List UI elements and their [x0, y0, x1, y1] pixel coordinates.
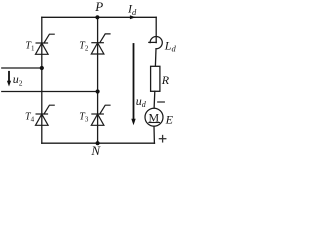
svg-text:T1: T1 — [25, 41, 35, 53]
minus sign (motor terminal) — [158, 101, 165, 103]
svg-text:E: E — [165, 113, 174, 127]
wire: inductor to resistor — [154, 49, 157, 67]
svg-text:T4: T4 — [25, 112, 35, 124]
svg-text:P: P — [94, 0, 103, 14]
svg-text:T3: T3 — [79, 112, 89, 124]
svg-text:u2: u2 — [13, 72, 23, 87]
thyristor T3 — [91, 105, 110, 125]
wire: resistor to motor — [153, 91, 156, 108]
plus sign (motor terminal) — [159, 136, 165, 142]
svg-text:N: N — [90, 143, 101, 158]
thyristor T2 — [91, 34, 110, 54]
wire: bottom bus N rail — [42, 142, 155, 144]
svg-text:Id: Id — [127, 2, 137, 17]
wire: motor to bottom bus — [153, 126, 155, 143]
node P — [94, 0, 103, 19]
node: upper AC junction on leg 1 — [40, 66, 44, 70]
resistor R — [151, 66, 160, 91]
thyristor T4 — [36, 105, 55, 125]
node: lower AC junction on leg 2 — [96, 89, 100, 93]
svg-text:Ld: Ld — [164, 38, 177, 53]
current arrow I_d — [127, 2, 137, 20]
wire: right branch from top corner to inductor — [155, 17, 157, 42]
inductor L_d — [149, 37, 162, 49]
svg-text:ud: ud — [136, 94, 147, 109]
wire: AC input upper line — [2, 67, 42, 69]
voltage arrow u_d — [131, 44, 135, 125]
voltage arrow u2 — [7, 72, 11, 87]
svg-text:R: R — [161, 73, 170, 87]
svg-text:T2: T2 — [79, 40, 89, 52]
wire: top bus P rail — [42, 16, 156, 18]
thyristor T1 — [36, 34, 55, 54]
motor M with EMF E — [145, 108, 163, 126]
wire: AC input lower line — [2, 91, 98, 93]
wire: bridge leg 2 (T2/T3) — [97, 17, 99, 143]
wire: bridge leg 1 (T1/T4) — [41, 17, 43, 143]
node N — [90, 141, 101, 158]
